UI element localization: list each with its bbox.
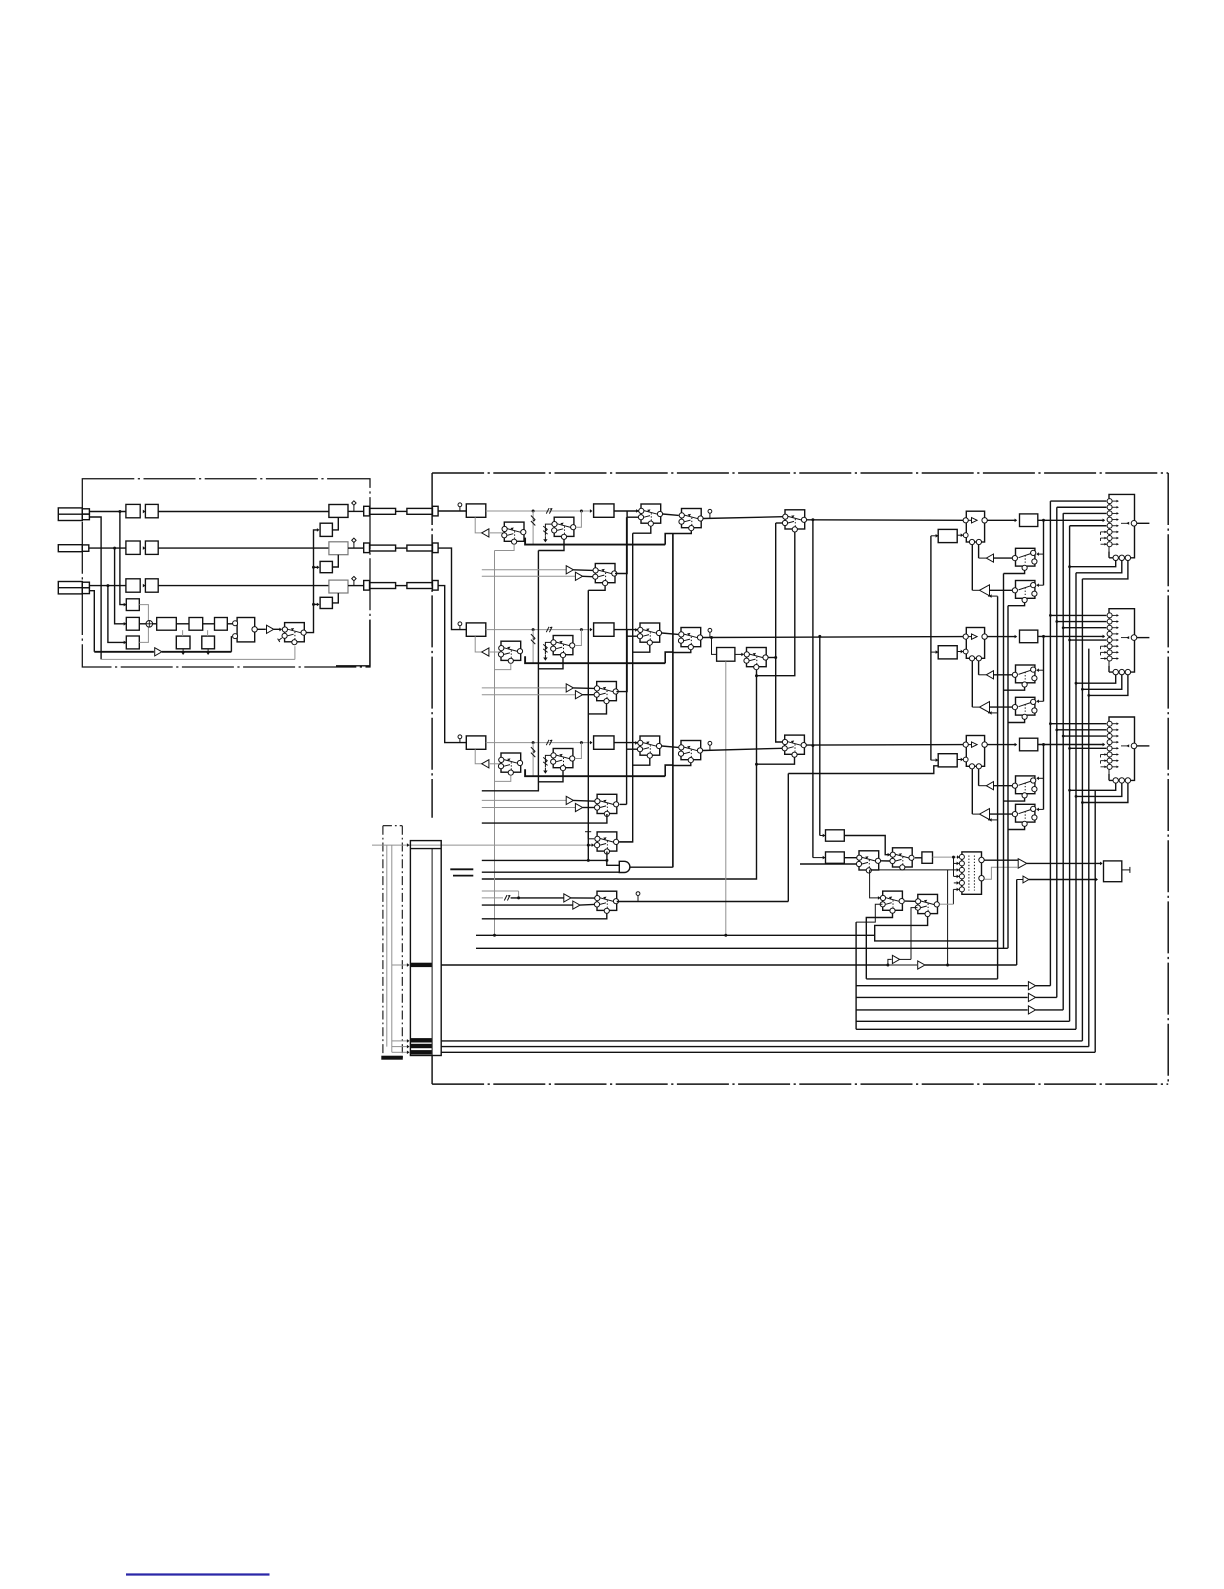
- selector1 bottom route: [588, 586, 605, 591]
- ch2 hold feedback: [475, 636, 482, 652]
- delay block 1: [126, 599, 139, 611]
- ch2 sub-chain wire: [735, 653, 744, 655]
- shield ground bar: [382, 1056, 403, 1059]
- ch2 test point at input: [458, 622, 462, 626]
- ch1 select feed down: [1043, 520, 1045, 585]
- input connector CN2: [58, 545, 82, 552]
- shield gray wire 2: [386, 845, 388, 1047]
- mute block row1-2: [320, 523, 332, 536]
- ch3 hold feedback: [475, 749, 482, 764]
- ch2 test point 2: [708, 628, 712, 632]
- selector2 bottom route: [588, 703, 606, 714]
- video DAC mux 1: [1101, 494, 1137, 560]
- mute block row2-3: [320, 561, 332, 572]
- E-feed vertical: [997, 596, 999, 979]
- switch ch1 SW3: [638, 504, 662, 526]
- ch3 SW2 bottom route: [538, 771, 563, 782]
- ch3 DAC amp block: [1020, 738, 1038, 751]
- small buffer 2: [1023, 876, 1029, 883]
- row3 wire: [89, 585, 126, 587]
- ch3 SW2 link to signal line: [575, 743, 582, 759]
- row2 filter block b: [145, 541, 158, 554]
- ch2 switch D: [1012, 665, 1037, 687]
- aux bend line: [866, 978, 997, 980]
- ch3 signal line (gray): [486, 742, 592, 744]
- ch3 SW5 bottom route: [757, 757, 794, 764]
- ch1 hold feedback: [475, 517, 482, 533]
- F to G: [880, 860, 890, 862]
- ch1 clamp to bias line: [532, 511, 534, 545]
- test point row2: [352, 538, 356, 542]
- video DAC mux 3 output wire: [1137, 745, 1150, 747]
- left box corner wire: [336, 620, 370, 666]
- K1 input: [820, 835, 825, 837]
- delay block 3: [126, 636, 139, 649]
- ch2 wire to mux: [1038, 635, 1104, 637]
- ch1 bias line: [525, 538, 665, 545]
- video DAC mux 3: [1101, 717, 1137, 783]
- selector4 output with test point: [617, 901, 789, 903]
- ctrl line b: [476, 947, 1008, 949]
- sel3 input hook: [620, 803, 627, 805]
- ch3 amp block 2: [594, 736, 614, 749]
- AND input 2: [482, 871, 620, 873]
- mux3 input staircase: [1050, 723, 1106, 725]
- gray link delay3 to adder: [139, 627, 148, 642]
- ch1 SW5 bottom route: [757, 532, 795, 676]
- tap wire row3 to delay block: [108, 586, 126, 643]
- tap wire row1 to delay block: [120, 512, 126, 605]
- selector cluster 1: [593, 564, 617, 586]
- ch3 E input buffer: [990, 813, 1013, 815]
- sw3 chain vertical: [626, 517, 628, 804]
- ch2 input wire: [438, 548, 466, 630]
- row3 filter block a: [126, 579, 140, 592]
- mux1 control routes: [1070, 561, 1116, 567]
- ch3 wire SW3 to SW4: [662, 746, 679, 747]
- row1 filter block b: [145, 504, 158, 517]
- c6 feed from Q: [953, 888, 959, 890]
- ch1 amp block 2: [594, 504, 614, 517]
- selector 3 input line B: [482, 807, 576, 809]
- ch3 SW3 bottom route: [633, 758, 650, 765]
- ch1 input wire: [438, 510, 466, 512]
- switch ch1 SW1: [502, 522, 526, 544]
- ch3 SW2 clamp and ground: [545, 755, 551, 767]
- control block K1: [826, 830, 845, 841]
- switch ch3 SW2: [551, 749, 575, 771]
- K2 input: [813, 857, 825, 859]
- ch3 switch E: [1012, 804, 1037, 826]
- sw-c output wire up: [306, 530, 318, 633]
- ctrl line a: [476, 934, 875, 936]
- selector cluster 4: [594, 891, 618, 913]
- chain wire: [203, 623, 215, 625]
- switch ch3 SW3: [637, 736, 661, 758]
- P lower input: [856, 904, 882, 922]
- sel bottom vertical: [587, 590, 589, 860]
- selector2 link: [616, 630, 627, 692]
- ch1 test point 2: [708, 509, 712, 513]
- ch2 wire block2 to SW3: [614, 629, 638, 631]
- output buffer: [257, 628, 266, 630]
- serial line from connector: [441, 964, 888, 966]
- control switch G: [890, 848, 914, 870]
- M c3 input line: [870, 869, 959, 871]
- ch3 D bottom route: [1004, 798, 1025, 801]
- mode block output (gray): [933, 856, 960, 858]
- selector 1 input line A: [482, 569, 566, 571]
- switch ch2 SW3: [637, 623, 661, 645]
- ch2 long wire SW4 to relay: [703, 636, 964, 639]
- switch SW-C (mode select): [282, 623, 306, 645]
- ch2 feedback block: [938, 646, 957, 659]
- row2 board connector right half: [396, 547, 407, 549]
- pll block 1: [189, 618, 203, 631]
- ch2 D bottom route: [1004, 687, 1025, 690]
- ch1 SW3 lower input: [627, 516, 639, 518]
- sw4 bottom chain vertical: [672, 534, 674, 868]
- ch1 sample-hold block: [466, 504, 486, 517]
- mux2 input staircase: [1050, 614, 1106, 616]
- serial buffer 2: [888, 964, 917, 966]
- switch ch1 SW5: [782, 510, 806, 532]
- ch3 test point at input: [458, 735, 462, 739]
- selector 2 input line B: [482, 694, 576, 696]
- F lower input: [800, 863, 856, 865]
- ch2 SW1 bottom route: [495, 663, 511, 669]
- chain wire: [176, 623, 189, 625]
- selector3 bottom route: [482, 814, 607, 823]
- sync switch cluster SW-S: [595, 832, 619, 854]
- sync output block W: [1104, 861, 1122, 882]
- ch3 bias line: [525, 769, 665, 776]
- gray link delay1 to adder: [139, 605, 148, 621]
- Q output gray: [940, 903, 954, 905]
- ch3 wire to mux: [1038, 744, 1104, 746]
- mux3 control routes: [1070, 783, 1116, 790]
- selector 4 input line A: [482, 890, 519, 892]
- ch1 SW1 bottom route: [495, 544, 515, 550]
- amp block row1: [329, 505, 348, 518]
- ch3 E bottom route: [1008, 826, 1025, 829]
- ceramic filter block 2: [202, 636, 215, 649]
- feedback line with buffer: [94, 651, 154, 653]
- switch ch2 SW4: [678, 628, 702, 650]
- delay block 2: [126, 617, 139, 630]
- ch3 SW1 bottom route: [495, 775, 511, 781]
- ctrl bus drop: [855, 922, 857, 1029]
- ch3 SW3 lower input: [627, 748, 638, 750]
- chain wire: [153, 623, 157, 625]
- row3 board connector left half: [348, 585, 364, 587]
- switch ch2 SW1: [498, 641, 522, 663]
- ch2 amp block 2: [594, 623, 614, 636]
- ch1 wire SW3 to SW4: [663, 514, 679, 515]
- ch1 level component: [546, 508, 552, 513]
- ch2 SW2 link to signal line: [575, 630, 582, 646]
- ch1 wire SW4 to SW5: [703, 517, 782, 519]
- test point row1: [352, 501, 356, 505]
- ch3 D input buffer: [994, 785, 1013, 787]
- K1 output: [844, 836, 890, 855]
- ch2 E input buffer: [990, 706, 1013, 708]
- main selector M: [962, 852, 982, 894]
- row1 board connector right half: [396, 510, 407, 512]
- control AND gate: [619, 861, 630, 872]
- ch2 SW5 bottom route: [482, 670, 757, 879]
- M output 2 (gray): [984, 867, 1018, 879]
- vco feedback wire: [230, 636, 232, 652]
- row2 filter block a: [126, 541, 140, 554]
- adder node: [146, 621, 153, 628]
- test point row3: [352, 576, 356, 580]
- SW-S bias tick: [585, 831, 591, 833]
- ch2 wire relay to DAC amp: [987, 636, 1016, 638]
- ch2 SW3 bottom route: [633, 645, 650, 652]
- switch ch1 SW4: [679, 509, 703, 531]
- video DAC mux 2: [1101, 609, 1137, 675]
- row2 wire to amp: [158, 547, 329, 549]
- selector 2 input line A: [482, 687, 566, 689]
- sw3 bottom chain vertical: [619, 533, 633, 842]
- amp block row2: [329, 542, 348, 555]
- W output stub: [1122, 869, 1130, 871]
- mux1 input staircase: [1050, 500, 1106, 502]
- ch3 output switch/limiter U3: [963, 736, 987, 769]
- ch2 tap vertical: [819, 636, 821, 835]
- ch1 wire to mux: [1038, 519, 1104, 521]
- ch3 feedback block: [938, 754, 957, 767]
- switch ch1 SW2: [552, 517, 576, 539]
- ch2 select feed down: [1043, 636, 1045, 701]
- blue footer rule: [126, 1573, 270, 1575]
- tall connector CN-A: [410, 841, 441, 1056]
- ch1 switch E: [1012, 581, 1037, 603]
- ch2 wire SW3 to SW4: [662, 633, 679, 634]
- ch2 sub-chain branch: [712, 638, 717, 655]
- E-route vertical: [1007, 606, 1009, 949]
- control block K2: [826, 852, 845, 863]
- AND output wire: [630, 866, 673, 868]
- ch1 SW5 output wire: [807, 519, 964, 522]
- M output 1 buffer: [984, 859, 1018, 861]
- ceramic filter block 1: [176, 636, 190, 649]
- ch3 switch D: [1012, 776, 1037, 798]
- D-route vertical: [1003, 574, 1005, 949]
- control switch Q: [915, 894, 939, 916]
- gray agc line: [101, 658, 295, 660]
- sw-c ground tick: [278, 638, 282, 642]
- control switch P: [880, 891, 904, 913]
- ch2 DAC amp block: [1020, 630, 1038, 643]
- main board outline (dash-dot): [432, 472, 1168, 474]
- row1 wire: [89, 511, 126, 513]
- ch3 test point 2: [708, 741, 712, 745]
- ch1 signal line (gray): [486, 510, 592, 512]
- ch2 sub-chain block gray drop: [725, 661, 727, 935]
- video DAC mux 2 output wire: [1137, 637, 1150, 639]
- amp block row3: [329, 580, 348, 593]
- ch3 SW5 output wire: [806, 744, 963, 747]
- sw1 bottom gray vertical: [494, 551, 496, 936]
- tap wire row2 to delay block: [115, 548, 127, 624]
- ribbon cable marker: [450, 868, 473, 870]
- ch1 SW2 link to signal line: [576, 511, 582, 527]
- ch1/ch3 tap vertical: [812, 521, 814, 858]
- ch1 output switch/limiter U1: [963, 511, 987, 544]
- feedback bias vertical: [930, 536, 932, 760]
- dac bus verticals: [1049, 501, 1051, 986]
- ch1 SW2 clamp and ground: [545, 524, 552, 536]
- connector data lines: [441, 1040, 1082, 1042]
- row1 wire to amp: [158, 511, 329, 513]
- ch2 SW3 lower input: [627, 635, 638, 637]
- selector 1 input line B: [482, 575, 576, 577]
- ch2 switch E: [1012, 697, 1037, 719]
- selector cluster 2: [594, 682, 618, 704]
- ch3 level component: [546, 740, 552, 745]
- ch1 D bottom route: [1004, 570, 1025, 573]
- ch1 D input buffer: [994, 557, 1013, 559]
- mute feed wires: [314, 566, 319, 568]
- ch1 SW3 bottom route: [633, 526, 651, 533]
- selector 3 input line A: [482, 799, 566, 801]
- gray control line: [372, 844, 588, 846]
- selector 4 input line B: [482, 904, 573, 906]
- selector1 link to amp out: [615, 511, 627, 574]
- ch3 wire block2 to SW3: [614, 742, 638, 744]
- ch1 E underside feed: [988, 595, 998, 597]
- row1 board connector left half: [348, 510, 364, 512]
- ch2 E bottom route: [1008, 719, 1025, 722]
- left board outline (dash-dot): [82, 479, 370, 667]
- ch3 SW4 bottom route: [673, 763, 691, 766]
- ch3 wire SW4 to SW5: [703, 748, 782, 750]
- switch ch2 SW2: [551, 636, 575, 658]
- Q lower input: [911, 908, 918, 960]
- ch1 wire relay to DAC amp: [987, 519, 1016, 521]
- input connector CN1: [58, 508, 82, 521]
- ch1 E bottom route: [1008, 603, 1025, 606]
- ch1 switch D: [1012, 548, 1037, 570]
- ch2 SW5 output: [768, 657, 776, 659]
- ch1 SW4 bottom route: [673, 531, 691, 534]
- M to P link: [870, 870, 881, 898]
- ch3 clamp to bias line: [532, 743, 534, 777]
- P bottom route: [866, 913, 892, 979]
- input connector CN3: [58, 582, 82, 594]
- pll block 2: [215, 618, 228, 631]
- ch2 sub-chain block: [717, 648, 735, 662]
- selector4 bottom route: [482, 913, 607, 918]
- row2 board connector left half: [348, 547, 364, 549]
- row3 filter block b: [145, 579, 158, 592]
- ch1 feedback block: [938, 529, 957, 542]
- M input stubs: [954, 862, 959, 864]
- c4 feed vertical: [953, 857, 955, 876]
- phase comparator: [237, 618, 255, 642]
- ch2 E underside feed: [988, 712, 998, 714]
- shield-to-connector arrows: [392, 964, 407, 966]
- shield gray wire: [391, 845, 393, 1052]
- bus bend lines: [856, 985, 1028, 987]
- row1 filter block a: [126, 504, 140, 517]
- mute block row3-4: [320, 597, 332, 608]
- ch2 level component: [546, 627, 552, 632]
- row2 wire: [89, 547, 126, 549]
- sel4 riser to feedback area: [787, 774, 789, 902]
- ch2 bias line: [525, 656, 665, 663]
- ch2 SW2 clamp and ground: [545, 642, 551, 654]
- ch1 SW2 bottom route: [538, 539, 564, 550]
- Q bottom route: [875, 917, 998, 941]
- wire CN1 low pin down: [89, 517, 101, 659]
- ch2 sample-hold block: [466, 623, 486, 636]
- row3 wire to amp: [158, 585, 329, 587]
- ch1 wire block2 to SW3: [614, 510, 639, 512]
- ch3 wire relay to DAC amp: [987, 744, 1016, 746]
- ch3 E underside feed: [988, 819, 998, 821]
- SW-S output link: [619, 841, 632, 843]
- mode block: [922, 852, 933, 863]
- ch1 E input buffer: [990, 589, 1013, 591]
- chain wire: [227, 623, 232, 625]
- switch ch2 SW5: [744, 648, 768, 670]
- sync sep block: [157, 618, 177, 631]
- link delay2 to adder: [139, 623, 146, 625]
- shield enclosure dash-dot: [382, 826, 384, 1058]
- K2 output: [844, 857, 856, 859]
- switch ch3 SW5: [782, 735, 806, 757]
- P to Q: [905, 900, 915, 902]
- row3 board connector right half: [396, 585, 407, 587]
- AND input 1: [482, 859, 607, 861]
- ch1 DAC amp block: [1020, 514, 1038, 527]
- ch2 D input buffer: [994, 674, 1013, 676]
- SW-S bottom stem: [606, 852, 608, 861]
- G output: [915, 857, 922, 859]
- selector cluster 3: [595, 794, 619, 816]
- ch2 output switch/limiter U2: [963, 628, 987, 661]
- control switch F: [856, 851, 880, 873]
- switch ch3 SW1: [498, 753, 522, 775]
- junction taps: [118, 510, 121, 513]
- ch3 sample-hold block: [466, 736, 486, 749]
- video DAC mux 1 output wire: [1137, 522, 1150, 524]
- switch ch3 SW4: [678, 741, 702, 763]
- ch3 input wire: [438, 586, 466, 743]
- wire CN3 low pin down: [89, 591, 94, 652]
- ch2 clamp to bias line: [532, 630, 534, 664]
- ch2 SW4 bottom route: [673, 650, 691, 653]
- mux2 control routes: [1076, 675, 1116, 683]
- sw5 chain vertical: [776, 523, 782, 742]
- ch1 test point at input: [458, 503, 462, 507]
- sw2 bottom vertical: [482, 551, 539, 791]
- ch2 SW2 bottom route: [538, 658, 563, 669]
- ch2 signal line (gray): [486, 629, 592, 631]
- ch3 select feed down: [1043, 745, 1045, 810]
